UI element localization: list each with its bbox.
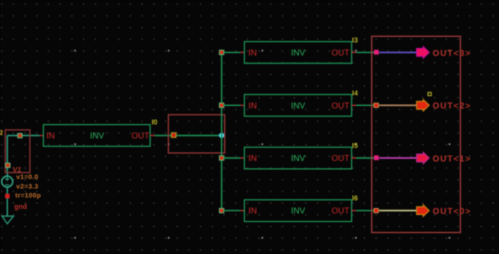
inverter I3 <box>240 37 358 63</box>
pin square OUT<3> (selected) <box>374 50 379 55</box>
pin square OUT<0> <box>374 209 378 213</box>
svg-text:IN: IN <box>248 206 257 216</box>
svg-text:OUT: OUT <box>332 206 350 216</box>
pin square OUT<2> <box>374 103 378 107</box>
wire vertex pin square (yellow) <box>171 133 176 138</box>
I0 body box <box>43 125 150 147</box>
selection bbox around net segment <box>168 115 224 153</box>
output pin arrow OUT<3> <box>417 47 430 58</box>
voltage source V1 circle <box>2 176 13 187</box>
svg-text:I6: I6 <box>352 196 358 203</box>
svg-text:OUT: OUT <box>132 131 150 141</box>
selection bbox around output pins <box>372 36 461 232</box>
svg-text:OUT<2>: OUT<2> <box>433 101 472 111</box>
inverter I0 <box>40 119 158 146</box>
wire: I5 out to pin OUT<1> <box>356 157 375 159</box>
V1 minus terminal pin square <box>5 194 10 199</box>
output pin arrow OUT<2> <box>417 100 430 111</box>
inverter I4 <box>240 90 358 116</box>
output pin arrow OUT<0> <box>417 205 430 216</box>
wire: net2 horizontal from corner to I0 input <box>7 135 39 137</box>
svg-text:INV: INV <box>291 153 306 163</box>
V1 instance selection bbox <box>5 130 30 173</box>
branch pin square row1 <box>219 50 223 54</box>
svg-text:gnd: gnd <box>14 204 27 211</box>
wire: branch to I5 input <box>224 157 241 159</box>
svg-text:OUT<0>: OUT<0> <box>433 206 472 216</box>
svg-text:tr=100p: tr=100p <box>15 192 41 199</box>
V1 plus terminal pin square <box>6 163 10 167</box>
svg-text:v1=0.0: v1=0.0 <box>16 174 38 181</box>
svg-text:INV: INV <box>291 100 306 110</box>
wire: I3 out to pin OUT<3> <box>356 51 375 53</box>
branch pin square row4 <box>219 208 223 212</box>
svg-text:V1: V1 <box>13 167 22 174</box>
wire: V1 minus to gnd <box>6 187 8 216</box>
svg-text:IN: IN <box>248 48 257 58</box>
svg-text:IN: IN <box>248 100 257 110</box>
V1 minus sign <box>5 184 9 186</box>
wire: branch to I3 input <box>224 51 241 53</box>
svg-text:I3: I3 <box>352 37 358 44</box>
pin square OUT<1> (selected) <box>374 155 379 160</box>
svg-text:OUT<3>: OUT<3> <box>433 48 472 58</box>
svg-text:2: 2 <box>0 128 3 137</box>
svg-text:IN: IN <box>46 131 55 141</box>
wire: branch to I6 input <box>224 210 241 212</box>
wire: vertical fanout trunk <box>221 52 223 210</box>
svg-text:v2=3.3: v2=3.3 <box>16 183 38 190</box>
wire: I0 output to junction <box>155 135 222 137</box>
svg-text:OUT: OUT <box>332 100 350 110</box>
svg-text:OUT: OUT <box>332 153 350 163</box>
svg-text:I4: I4 <box>352 90 358 97</box>
wire: net2 vertical down to V1 plus terminal <box>6 136 8 177</box>
wire: I6 out to pin OUT<0> <box>356 210 375 212</box>
svg-text:IN: IN <box>248 153 257 163</box>
ground symbol <box>2 216 14 224</box>
inverter I6 <box>240 196 358 222</box>
svg-text:INV: INV <box>90 131 105 141</box>
wire: I4 out to pin OUT<2> <box>356 104 375 106</box>
wire: branch to I4 input <box>224 104 241 106</box>
svg-text:I5: I5 <box>352 143 358 150</box>
V1 plus sign <box>5 177 9 181</box>
inverter I5 <box>240 143 358 169</box>
wire: to OUT<3> pin (hilite blue) <box>379 51 417 53</box>
output pin arrow OUT<1> <box>417 152 430 163</box>
branch pin square row3 <box>219 156 223 160</box>
I0 input pin stub <box>40 135 44 137</box>
I0 output pin stub <box>150 135 154 137</box>
junction solder dot <box>219 133 224 138</box>
branch pin square row2 <box>219 103 223 107</box>
svg-text:INV: INV <box>291 206 306 216</box>
svg-text:INV: INV <box>291 48 306 58</box>
svg-text:OUT<1>: OUT<1> <box>433 153 472 163</box>
svg-text:I0: I0 <box>152 119 158 126</box>
wire: to OUT<1> pin (hilite magenta) <box>379 157 417 159</box>
pin square on net2 wire <box>18 133 22 137</box>
selection handle square near OUT<2> arrow <box>428 92 431 95</box>
wire: to OUT<0> pin (olive) <box>379 210 417 212</box>
svg-text:OUT: OUT <box>332 48 350 58</box>
wire: to OUT<2> pin (olive) <box>379 104 417 106</box>
